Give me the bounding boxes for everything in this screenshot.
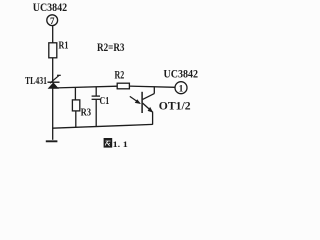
svg-text:R3: R3 <box>81 107 92 118</box>
svg-text:1. 1: 1. 1 <box>113 139 128 149</box>
svg-text:R2: R2 <box>115 70 125 82</box>
light arrow into phototransistor <box>130 96 141 104</box>
svg-text:TL431: TL431 <box>25 76 47 87</box>
wire R2 to pin1 circle <box>129 86 175 87</box>
pin 1 circle <box>175 82 187 95</box>
optocoupler phototransistor OT1/2 <box>142 86 154 124</box>
wire mid horizontal (TL431 node to R2) <box>53 86 118 88</box>
capacitor C1 <box>92 87 100 127</box>
resistor R1 <box>49 43 57 58</box>
TL431 U1 (shunt regulator symbol) <box>48 75 61 88</box>
svg-text:R2=R3: R2=R3 <box>97 42 125 54</box>
resistor R3 <box>72 100 79 111</box>
pin 7 circle <box>47 15 58 26</box>
wire ground rail <box>52 124 153 128</box>
svg-text:7: 7 <box>50 16 55 26</box>
svg-text:R1: R1 <box>59 41 69 52</box>
svg-text:UC3842: UC3842 <box>33 2 68 14</box>
svg-text:OT1/2: OT1/2 <box>159 99 191 113</box>
caption 图1.1 <box>104 138 128 149</box>
wire TL431 anode down to ground rail <box>52 88 54 139</box>
wire R3 bottom lead <box>75 111 77 127</box>
svg-text:1: 1 <box>179 85 184 95</box>
wire R1 to TL431 cathode <box>52 58 54 82</box>
svg-text:C1: C1 <box>100 96 110 107</box>
wire pin7 to R1 <box>52 26 54 43</box>
wire R3 top lead <box>74 88 76 100</box>
ground <box>46 140 58 142</box>
resistor R2 <box>117 83 129 89</box>
svg-text:UC3842: UC3842 <box>164 68 199 80</box>
